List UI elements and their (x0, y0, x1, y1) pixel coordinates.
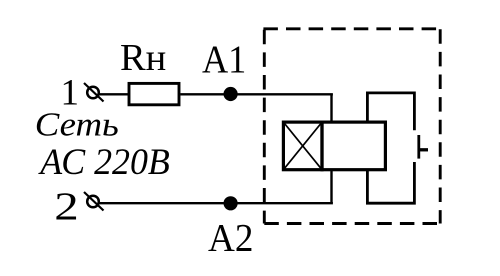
svg-text:А2: А2 (208, 217, 253, 260)
output contact actuator tick (419, 148, 428, 151)
node A2 junction dot (224, 196, 238, 210)
svg-text:2: 2 (54, 185, 79, 228)
svg-text:А1: А1 (202, 38, 246, 81)
wire: output loop bottom (367, 162, 414, 203)
wire: output loop top (367, 93, 414, 130)
terminal 1 (circle with slash) (84, 83, 104, 102)
wire: terminal 2 to SSR input A2 (100, 202, 333, 204)
SSR body rectangle (322, 122, 385, 170)
resistor Rн (129, 83, 179, 104)
svg-text:АС 220В: АС 220В (37, 142, 170, 183)
wire: A2 feed up to module (330, 170, 332, 203)
wire: A1 feed down to module (330, 94, 332, 123)
output contact movable bar (417, 135, 420, 159)
svg-text:Сеть: Сеть (35, 107, 119, 144)
terminal 2 (circle with slash) (84, 192, 104, 211)
wire: terminal 1 to resistor (100, 93, 130, 95)
crossed box X diagonals (283, 122, 322, 170)
node A1 junction dot (224, 87, 238, 101)
svg-text:Rн: Rн (120, 37, 166, 79)
wire: resistor to SSR input A1 (181, 93, 333, 95)
dashed enclosure (SSR module boundary) (263, 29, 440, 224)
SSR input crossed box (coil/optocoupler) (283, 122, 322, 170)
